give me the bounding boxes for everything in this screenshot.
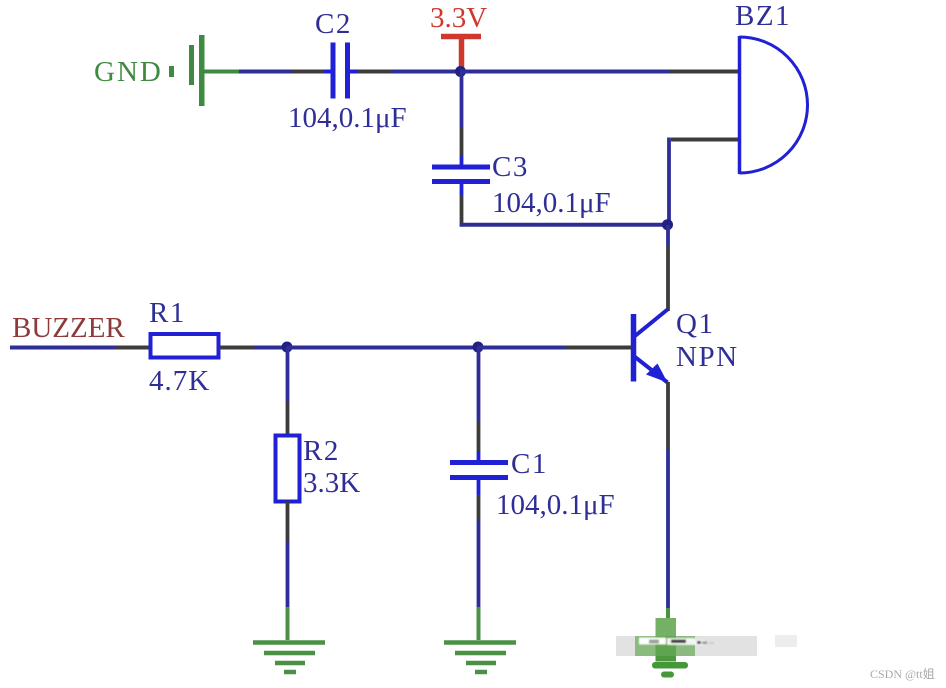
resistor R2 [276, 435, 340, 502]
power symbol GND [94, 35, 239, 106]
watermark text CSDN [870, 667, 935, 681]
wire node B to Q1 base [478, 346, 631, 350]
wire C2 to 3.3V node [358, 70, 460, 74]
svg-text:104,0.1μF: 104,0.1μF [492, 187, 611, 219]
wire node A to node B [287, 346, 478, 350]
svg-text:R2: R2 [303, 435, 340, 467]
node A junction [282, 342, 293, 353]
svg-text:BUZZER: BUZZER [12, 312, 125, 344]
wire 3.3V node down to C3 [460, 73, 464, 156]
watermark green blob (obscured ground symbol) [635, 618, 695, 662]
svg-text:C3: C3 [492, 151, 529, 183]
wire GND to C2 [239, 70, 324, 74]
svg-text:BZ1: BZ1 [735, 0, 791, 32]
svg-text:C2: C2 [315, 8, 352, 40]
value label R2 3.3K [303, 467, 360, 499]
svg-text:3.3K: 3.3K [303, 467, 360, 499]
wire R2 to ground [286, 502, 290, 608]
value label R1 4.7K [149, 365, 210, 397]
wire Q1 emitter down [666, 382, 670, 621]
svg-text:R1: R1 [149, 297, 186, 329]
capacitor C1 [450, 448, 548, 495]
buzzer BZ1 [735, 0, 808, 174]
svg-text:C1: C1 [511, 448, 548, 480]
svg-text:4.7K: 4.7K [149, 365, 210, 397]
wire R1 to node A [219, 346, 287, 350]
net label BUZZER [12, 312, 125, 344]
wire 3.3V node to BZ1 pin 1 [460, 70, 738, 74]
watermark remnant marks [639, 638, 714, 646]
value label C2 104,0.1uF [288, 102, 407, 134]
svg-text:3.3V: 3.3V [430, 2, 487, 34]
wire C1 to ground [477, 495, 481, 608]
wire collector node to Q1 collector [666, 225, 670, 311]
wire node A down to R2 [286, 347, 290, 435]
svg-text:Q1: Q1 [676, 308, 714, 340]
ground symbol (below Q1 emitter, partly visible) [652, 662, 688, 678]
node 3.3V junction [455, 66, 466, 77]
power symbol 3.3V [430, 2, 487, 70]
wire node B down to C1 [477, 347, 481, 451]
svg-text:NPN: NPN [676, 341, 739, 373]
wire BZ1 pin 2 [669, 138, 738, 228]
value label C1 104,0.1uF [496, 489, 615, 521]
svg-text:GND: GND [94, 56, 163, 88]
wire C3 to collector node [460, 195, 667, 225]
ground symbol (below R2) [253, 607, 325, 672]
watermark band over emitter ground [616, 635, 797, 656]
svg-text:CSDN @tt姐: CSDN @tt姐 [870, 667, 935, 681]
svg-text:104,0.1μF: 104,0.1μF [496, 489, 615, 521]
svg-text:104,0.1μF: 104,0.1μF [288, 102, 407, 134]
ground symbol (below C1) [444, 607, 516, 672]
transistor Q1 [634, 308, 739, 383]
value label C3 104,0.1uF [492, 187, 611, 219]
capacitor C2 [315, 8, 358, 99]
node collector junction [662, 219, 673, 230]
capacitor C3 [432, 151, 529, 195]
node B junction [473, 342, 484, 353]
wire BUZZER to R1 [10, 346, 150, 350]
resistor R1 [149, 297, 219, 358]
